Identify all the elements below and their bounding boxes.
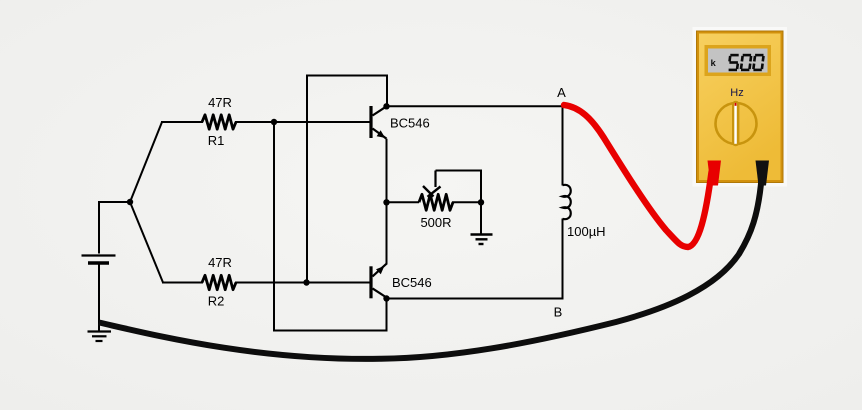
svg-text:B: B	[554, 305, 563, 320]
multimeter black probe plug	[756, 161, 770, 186]
svg-text:47R: 47R	[208, 255, 232, 270]
wire diagonal to R1	[130, 122, 162, 202]
node junction pot right	[478, 199, 484, 205]
multimeter LCD bezel	[705, 45, 772, 76]
wire R2 to Q2 base	[235, 282, 370, 284]
potentiometer RV1 500R	[419, 194, 453, 210]
wire battery bottom to ground	[98, 265, 100, 332]
resistor R1	[202, 115, 236, 129]
wire Q1 collector to node A	[387, 105, 563, 107]
multimeter body	[695, 29, 786, 185]
red test lead from node A to meter	[564, 105, 712, 247]
node junction battery split	[127, 199, 133, 205]
svg-text:BC546: BC546	[392, 275, 432, 290]
wire feedback R1 to bottom rail to Q2 emitter node	[274, 122, 387, 331]
svg-text:R1: R1	[208, 133, 225, 148]
svg-text:R2: R2	[208, 294, 225, 309]
wire Q1 emitter to Q2 top	[386, 139, 388, 265]
ground (pot)	[471, 235, 493, 245]
inductor L1	[563, 185, 571, 219]
black test lead from ground to meter	[99, 172, 762, 359]
wire node A down to inductor	[562, 106, 564, 185]
svg-text:BC546: BC546	[390, 116, 430, 131]
transistor Q2	[369, 264, 386, 299]
wire inductor to node B	[387, 219, 563, 299]
multimeter red probe plug	[708, 161, 722, 186]
node junction R1 output	[271, 119, 277, 125]
battery V1	[82, 256, 116, 264]
potentiometer wiper arrow	[423, 171, 441, 197]
node junction pot left on emitter line	[383, 199, 389, 205]
ground (battery)	[88, 332, 112, 342]
svg-text:k: k	[711, 58, 717, 69]
transistor Q1	[369, 106, 386, 139]
node junction Q1 collector	[383, 103, 389, 109]
svg-text:Hz: Hz	[730, 87, 743, 99]
wire to R1 left	[161, 121, 203, 123]
wire pot left	[387, 201, 420, 203]
node junction Q2 base feedback	[303, 279, 309, 285]
multimeter LCD reading 500 seven-segment	[729, 55, 764, 70]
resistor R2	[202, 275, 236, 289]
wire battery top to junction	[99, 202, 130, 254]
wire diagonal to R2	[130, 202, 163, 283]
multimeter rotary dial	[716, 101, 757, 146]
wire feedback Q1 collector rail to Q2 base	[307, 76, 387, 283]
wire pot right	[452, 201, 481, 203]
svg-text:100µH: 100µH	[567, 224, 606, 239]
svg-text:47R: 47R	[208, 95, 232, 110]
svg-text:500R: 500R	[420, 215, 451, 230]
wire R1 to Q1 base	[235, 121, 370, 123]
wire to R2 left	[162, 282, 203, 284]
svg-text:A: A	[557, 85, 566, 100]
wire pot right to ground	[480, 202, 482, 234]
wire wiper loop to right terminal	[436, 171, 482, 203]
multimeter LCD screen	[708, 49, 768, 73]
node junction Q2 bottom	[383, 295, 389, 301]
